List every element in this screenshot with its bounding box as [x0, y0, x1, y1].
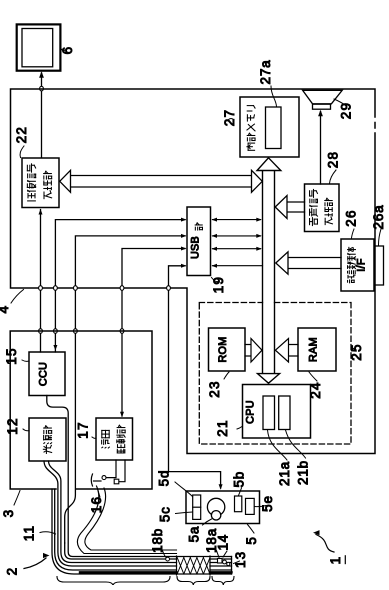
block 5 operation unit — [186, 491, 260, 524]
junction bubble on box4 edge (video-out) — [40, 86, 44, 91]
label 15 — [4, 347, 29, 364]
svg-text:17: 17 — [76, 421, 91, 438]
monitor 6 (display) — [17, 24, 61, 70]
label 11 — [22, 525, 56, 541]
hollow arrow RAM->bus — [275, 339, 298, 363]
svg-text:21b: 21b — [296, 460, 311, 485]
junction bubble (40.5,331) — [39, 329, 43, 334]
joystick 5a — [207, 498, 224, 520]
wire USB<->bending drive — [120, 247, 187, 418]
svg-text:23: 23 — [207, 380, 222, 397]
switch 5c/5d — [193, 495, 201, 519]
label 18a — [204, 528, 219, 558]
junction bubble (40.5,288) — [39, 286, 43, 291]
label 3 — [1, 491, 20, 518]
label 19 — [211, 276, 226, 293]
junction bubble (75.4,288) — [74, 286, 78, 291]
label 23 — [207, 372, 229, 398]
svg-text:5e: 5e — [260, 495, 275, 512]
label 4 — [0, 290, 24, 314]
light guide pair — [44, 461, 232, 566]
label 29 — [334, 99, 354, 119]
svg-text:22: 22 — [14, 126, 29, 143]
bus main shaft (to memory & CPU) — [257, 158, 281, 383]
label 5b — [232, 471, 247, 496]
svg-text:ROM: ROM — [217, 336, 229, 362]
svg-text:3: 3 — [1, 509, 16, 518]
wire USB<->cord (w75) — [65, 234, 187, 543]
block 17 bending drive 湾曲駆動部 — [96, 418, 133, 460]
cord sheath lines — [52, 489, 232, 574]
CCU signal cable — [47, 396, 232, 557]
inner rect 27a — [266, 107, 282, 149]
mark 18b circle — [166, 557, 170, 561]
label 12 — [5, 417, 29, 434]
svg-text:CCU: CCU — [38, 362, 50, 386]
wire video-out to monitor — [39, 71, 44, 157]
svg-text:26: 26 — [344, 209, 359, 226]
button 5e — [246, 498, 255, 514]
svg-text:13: 13 — [233, 551, 248, 568]
svg-text:CPU: CPU — [245, 400, 257, 424]
label 16 — [89, 489, 104, 513]
label 14 — [216, 534, 231, 557]
hollow arrow video<->bus — [60, 170, 263, 192]
block 27 internal memory 内部メモリ — [240, 97, 299, 157]
wire media->USB — [212, 264, 263, 268]
svg-text:4: 4 — [0, 305, 11, 314]
brace B — [177, 577, 210, 586]
label 6 — [60, 46, 75, 55]
label 5e — [255, 495, 275, 512]
wire USB-bus 2 — [212, 234, 262, 238]
hollow arrow audio->bus — [275, 196, 304, 219]
svg-text:15: 15 — [4, 347, 19, 364]
removable medium 26a — [375, 246, 384, 285]
label 1 — [313, 530, 345, 564]
label 26 — [344, 209, 359, 238]
svg-text:25: 25 — [349, 343, 364, 360]
svg-text:5c: 5c — [157, 506, 172, 522]
label 21 — [215, 419, 242, 436]
svg-text:5a: 5a — [187, 526, 202, 543]
block 23 ROM — [209, 328, 246, 371]
label 5a — [187, 519, 212, 542]
block 15 CCU — [29, 352, 65, 396]
label 5 — [244, 525, 259, 545]
hollow arrow ROM->bus — [245, 339, 262, 363]
brace C — [212, 577, 234, 586]
block 26 recording media interface 記録媒体I/F — [341, 239, 374, 291]
label 18b — [150, 528, 166, 558]
junction bubble (122,288) — [120, 286, 124, 291]
label 27a — [258, 60, 277, 107]
text 記録媒体 / I/F — [348, 247, 368, 282]
block 22 video signal processor 映像信号処理部 — [22, 158, 59, 208]
svg-text:11: 11 — [22, 525, 37, 541]
text 内部メモリ — [247, 106, 255, 151]
block 12 light source 光源部 — [29, 418, 66, 461]
register 21a — [263, 396, 275, 430]
speaker 29 — [303, 90, 343, 109]
svg-text:19: 19 — [211, 276, 226, 293]
label 22 — [14, 126, 29, 158]
connector 16 — [91, 460, 125, 486]
tube dark band — [80, 571, 232, 573]
label 13 — [233, 551, 248, 568]
w75 cable lower — [65, 543, 232, 559]
objective 18a mark — [218, 559, 223, 564]
brace A — [57, 577, 170, 586]
svg-text:21a: 21a — [277, 461, 292, 486]
dashed box 25 controller — [199, 303, 351, 445]
tip lenses — [223, 560, 230, 566]
svg-text:I/F: I/F — [356, 258, 368, 272]
svg-text:12: 12 — [5, 417, 20, 434]
coil bending section — [177, 556, 211, 575]
svg-text:26a: 26a — [371, 205, 386, 230]
label 5d — [157, 470, 193, 497]
junction bubble (55.4,288) — [54, 286, 58, 291]
block 28 audio signal processor 音声信号処理部 — [305, 184, 340, 232]
svg-text:27a: 27a — [258, 60, 273, 85]
box 4 processor unit (L-shaped outline) — [11, 89, 376, 454]
svg-text:5: 5 — [244, 536, 259, 545]
svg-text:27: 27 — [222, 109, 237, 126]
wire audio to speaker — [318, 110, 323, 184]
wire USB-bus 1 — [212, 218, 262, 222]
tube end cap — [231, 557, 233, 575]
label 2 arrow — [5, 553, 50, 575]
svg-text:18b: 18b — [150, 528, 165, 553]
angle wires to scope — [77, 486, 176, 554]
label 28 — [326, 151, 341, 184]
wire USB-bus 3 — [212, 247, 262, 251]
hollow arrow media->bus — [276, 252, 341, 274]
text 映像信号/処理部 — [27, 164, 51, 201]
label 21a — [268, 430, 293, 486]
label 17 — [76, 421, 97, 438]
svg-text:14: 14 — [216, 534, 231, 551]
svg-text:5d: 5d — [157, 470, 172, 487]
label 25 — [349, 343, 364, 360]
label 27 — [222, 109, 237, 126]
junction bubble (122,331) — [120, 329, 124, 334]
svg-text:28: 28 — [326, 151, 341, 168]
svg-text:1: 1 — [328, 556, 343, 565]
label 26a — [371, 205, 386, 245]
register 21b — [279, 396, 290, 430]
box 3 outline — [10, 331, 152, 489]
wire USB<->operation unit — [169, 264, 223, 490]
svg-text:21: 21 — [215, 419, 230, 436]
svg-text:RAM: RAM — [308, 337, 320, 362]
text 音声信号/処理部 — [310, 189, 333, 225]
label 24 — [308, 372, 323, 399]
wire USB<->CCU — [53, 218, 186, 352]
button 5b — [235, 496, 242, 512]
junction bubble (75.4,331) — [74, 329, 78, 334]
wire CCU->video proc — [39, 209, 43, 352]
junction bubble (55.4,331) — [54, 329, 58, 334]
svg-text:USB: USB — [190, 236, 202, 259]
svg-text:5b: 5b — [232, 471, 247, 488]
label 21b — [286, 430, 311, 485]
block 24 RAM — [298, 328, 336, 371]
junction bubble (168.5,288) — [167, 286, 171, 291]
svg-text:2: 2 — [5, 567, 20, 576]
label 5c — [157, 506, 192, 522]
text USB部 — [190, 223, 203, 259]
block 21 CPU — [243, 385, 311, 439]
block 19 USB部 — [187, 207, 211, 276]
svg-text:29: 29 — [339, 102, 354, 119]
